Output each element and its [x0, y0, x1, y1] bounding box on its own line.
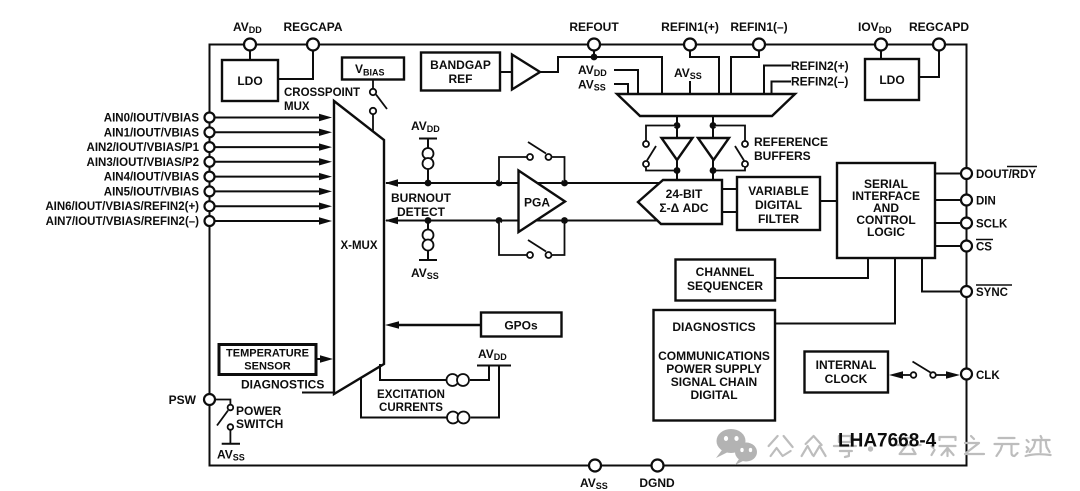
- svg-text:PSW: PSW: [169, 393, 197, 407]
- pin REFIN1(-): [730, 20, 787, 51]
- node burnout bottom junction: [425, 217, 432, 224]
- wire AVSS center to ref mux: [689, 81, 691, 94]
- wire AIN4 to X-MUX: [215, 173, 333, 180]
- svg-text:BUFFERS: BUFFERS: [754, 149, 811, 163]
- svg-text:CROSSPOINT: CROSSPOINT: [284, 87, 360, 99]
- watermark wechat icon: [716, 429, 757, 465]
- node PGA bypass upper-left: [496, 180, 503, 187]
- svg-text:AIN4/IOUT/VBIAS: AIN4/IOUT/VBIAS: [104, 172, 200, 184]
- switch S4 (PGA bypass top): [499, 142, 565, 183]
- wire excitation upper to AVDD rail: [470, 366, 489, 381]
- pin REGCAPD: [909, 20, 969, 51]
- switch S7 (power switch): [215, 400, 233, 444]
- wire ADC to filter (upper): [722, 188, 737, 190]
- wire right buffer output: [712, 160, 714, 180]
- LDO U2 (digital, top-right): [865, 59, 919, 100]
- pin AIN2/IOUT/VBIAS/P1: [87, 142, 215, 154]
- reference mux trapezoid: [617, 94, 795, 116]
- current source I3 (excitation upper): [447, 374, 470, 386]
- wire serial to CS: [935, 245, 961, 247]
- wire diagnostics to serial: [775, 258, 895, 324]
- wire filter to serial interface: [820, 200, 837, 202]
- wire serial to SCLK: [935, 222, 961, 224]
- wire ref mux to left buffer: [676, 116, 678, 138]
- INTERNAL CLOCK box: [805, 352, 889, 393]
- current source I2 (burnout bottom, AVSS): [411, 221, 439, 282]
- svg-text:SEQUENCER: SEQUENCER: [687, 279, 763, 293]
- switch S1 (VBIAS to X-MUX): [370, 80, 387, 131]
- wire excitation lower to AVDD rail: [471, 366, 500, 418]
- pin AVDD (top-left): [233, 20, 262, 51]
- svg-text:AIN3/IOUT/VBIAS/P2: AIN3/IOUT/VBIAS/P2: [87, 157, 199, 169]
- svg-text:REFIN2(+): REFIN2(+): [791, 59, 849, 73]
- wire REFOUT pin to node: [593, 51, 595, 58]
- svg-text:MUX: MUX: [284, 101, 310, 113]
- svg-text:BANDGAP: BANDGAP: [430, 58, 491, 72]
- GPOs box: [481, 313, 562, 337]
- wire ref mux to right buffer: [712, 116, 714, 138]
- pin SYNC: [961, 285, 1012, 299]
- LDO U1 (analog, top-left): [222, 60, 278, 101]
- pin CLK: [961, 369, 1000, 383]
- pin AIN1/IOUT/VBIAS: [104, 127, 215, 139]
- svg-text:AIN5/IOUT/VBIAS: AIN5/IOUT/VBIAS: [104, 186, 200, 198]
- svg-text:SIGNAL CHAIN: SIGNAL CHAIN: [671, 375, 757, 389]
- node PGA bypass lower-left: [496, 217, 503, 224]
- wire REFIN1(+) pin to ref mux: [690, 51, 719, 95]
- svg-text:SENSOR: SENSOR: [244, 361, 291, 373]
- svg-text:POWER: POWER: [236, 404, 282, 418]
- svg-text:LHA7668-4: LHA7668-4: [838, 431, 937, 452]
- pin DIN: [961, 195, 996, 208]
- svg-text:POWER SUPPLY: POWER SUPPLY: [666, 362, 762, 376]
- wire IOVDD pin to LDO: [880, 51, 882, 60]
- svg-text:24-BIT: 24-BIT: [666, 187, 703, 201]
- svg-text:DIGITAL: DIGITAL: [690, 388, 737, 402]
- wire X-MUX to excitation lower: [361, 378, 447, 418]
- switch S3 (right buffer bypass): [713, 126, 748, 171]
- chip boundary: [210, 45, 967, 466]
- pin AIN6/IOUT/VBIAS/REFIN2(+): [45, 201, 214, 213]
- svg-text:DIAGNOSTICS: DIAGNOSTICS: [241, 378, 324, 392]
- wire channel sequencer to serial: [775, 258, 868, 278]
- svg-text:INTERNAL: INTERNAL: [816, 358, 877, 372]
- pin REFOUT: [569, 20, 619, 51]
- wire AIN3 to X-MUX: [215, 158, 333, 165]
- pin AVSS (bottom): [580, 460, 608, 491]
- svg-text:BURNOUT: BURNOUT: [391, 191, 452, 205]
- pin IOVDD: [858, 20, 892, 51]
- svg-text:REGCAPD: REGCAPD: [909, 20, 969, 34]
- svg-text:LDO: LDO: [237, 74, 262, 88]
- node PGA bypass lower-right: [561, 217, 568, 224]
- pin CS: [961, 240, 993, 254]
- svg-text:REFERENCE: REFERENCE: [754, 135, 828, 149]
- wire AIN6 to X-MUX: [215, 203, 333, 210]
- wire serial to DIN: [935, 199, 961, 201]
- wire X-MUX to excitation upper: [380, 364, 447, 380]
- X-MUX: [334, 101, 384, 394]
- svg-text:AIN6/IOUT/VBIAS/REFIN2(+): AIN6/IOUT/VBIAS/REFIN2(+): [45, 201, 199, 213]
- svg-text:EXCITATION: EXCITATION: [377, 389, 445, 401]
- svg-text:TEMPERATURE: TEMPERATURE: [226, 348, 309, 360]
- node PGA bypass upper-right: [561, 180, 568, 187]
- svg-text:VARIABLE: VARIABLE: [748, 184, 808, 198]
- switch S6 (internal clock / CLK): [889, 362, 960, 379]
- wire bandgap output to reference mux: [540, 57, 662, 94]
- svg-text:DIGITAL: DIGITAL: [755, 198, 802, 212]
- VBIAS box: [342, 58, 404, 80]
- CROSSPOINT MUX label: [284, 87, 360, 113]
- label POWER SWITCH: [236, 404, 283, 431]
- power rail AVDD (excitation): [477, 347, 511, 366]
- pin PSW: [169, 393, 215, 407]
- pin SCLK: [961, 218, 1008, 231]
- node right buffer input: [710, 122, 717, 129]
- wire AIN1 to X-MUX: [215, 129, 333, 136]
- svg-text:CLOCK: CLOCK: [825, 372, 868, 386]
- CHANNEL SEQUENCER box: [676, 260, 776, 301]
- VARIABLE DIGITAL FILTER box: [737, 177, 820, 230]
- wire REFIN1(-) pin to ref mux: [731, 51, 759, 95]
- wire diagnostics to X-MUX: [302, 392, 335, 394]
- svg-text:AIN1/IOUT/VBIAS: AIN1/IOUT/VBIAS: [104, 127, 200, 139]
- svg-text:CLK: CLK: [976, 370, 1000, 382]
- op-amp A2 (left reference buffer): [662, 138, 693, 160]
- svg-text:DGND: DGND: [639, 476, 675, 490]
- svg-text:SWITCH: SWITCH: [236, 417, 283, 431]
- pin AIN0/IOUT/VBIAS: [104, 113, 215, 125]
- node REFOUT junction: [591, 54, 598, 61]
- svg-text:PGA: PGA: [524, 196, 550, 210]
- svg-text:AIN2/IOUT/VBIAS/P1: AIN2/IOUT/VBIAS/P1: [87, 142, 200, 154]
- op-amp A1 (bandgap buffer): [500, 55, 540, 90]
- current source I1 (burnout top, AVDD): [411, 119, 440, 183]
- svg-text:CS: CS: [976, 242, 992, 254]
- svg-text:LDO: LDO: [879, 73, 904, 87]
- DIAGNOSTICS box: [654, 310, 776, 421]
- label EXCITATION CURRENTS: [377, 389, 445, 414]
- wire GPOs to X-MUX: [385, 321, 481, 329]
- op-amp A3 (right reference buffer): [698, 138, 729, 160]
- wire AIN0 to X-MUX: [215, 114, 333, 121]
- svg-text:COMMUNICATIONS: COMMUNICATIONS: [658, 349, 770, 363]
- pin REFIN1(+): [661, 20, 719, 51]
- label REFERENCE BUFFERS: [754, 135, 828, 163]
- svg-text:REGCAPA: REGCAPA: [283, 20, 342, 34]
- svg-text:AIN7/IOUT/VBIAS/REFIN2(–): AIN7/IOUT/VBIAS/REFIN2(–): [46, 216, 200, 228]
- svg-text:X-MUX: X-MUX: [340, 240, 377, 252]
- wire REFIN2(+) to ref mux: [764, 66, 791, 95]
- wire AIN7 to X-MUX: [215, 217, 333, 224]
- TEMPERATURE SENSOR box: [219, 345, 316, 375]
- pin AIN7/IOUT/VBIAS/REFIN2(-): [46, 216, 215, 228]
- svg-text:REFIN1(+): REFIN1(+): [661, 20, 719, 34]
- wire REGCAPD pin to LDO: [919, 51, 939, 78]
- node left buffer output: [674, 167, 681, 174]
- svg-text:GPOs: GPOs: [504, 319, 538, 333]
- BANDGAP REF box: [421, 53, 500, 91]
- current source I4 (excitation lower): [447, 412, 470, 424]
- svg-text:SYNC: SYNC: [976, 287, 1008, 299]
- wire AIN2 to X-MUX: [215, 143, 333, 150]
- svg-text:Σ-Δ ADC: Σ-Δ ADC: [659, 201, 708, 215]
- svg-text:LOGIC: LOGIC: [867, 225, 905, 239]
- wire ADC to filter (lower): [722, 211, 737, 213]
- wire left buffer output: [676, 160, 678, 180]
- wire AVDD pin to LDO: [249, 51, 251, 61]
- wire REGCAPA pin to LDO: [278, 51, 313, 80]
- wire AVDD to ref mux: [614, 70, 638, 94]
- svg-text:DETECT: DETECT: [397, 205, 446, 219]
- node left buffer input: [674, 122, 681, 129]
- svg-text:FILTER: FILTER: [758, 212, 799, 226]
- pin AIN3/IOUT/VBIAS/P2: [87, 157, 215, 169]
- pin DGND: [639, 460, 675, 491]
- pin AIN4/IOUT/VBIAS: [104, 172, 215, 184]
- watermark text 公众号·云深之无迹: [769, 436, 1051, 457]
- wire AVSS to ref mux: [614, 84, 628, 94]
- wire X-MUX to ADC (lower signal): [385, 217, 658, 224]
- node right buffer output: [710, 167, 717, 174]
- wire AIN5 to X-MUX: [215, 188, 333, 195]
- wire serial to SYNC: [922, 258, 961, 292]
- ground AVSS (power switch): [217, 444, 245, 463]
- svg-text:REFIN1(–): REFIN1(–): [730, 20, 787, 34]
- wire temperature sensor to X-MUX: [316, 355, 333, 362]
- svg-text:DIN: DIN: [976, 196, 996, 208]
- svg-text:REF: REF: [449, 72, 473, 86]
- switch S2 (left buffer bypass): [643, 126, 677, 171]
- svg-text:SCLK: SCLK: [976, 219, 1008, 231]
- svg-text:DOUT/RDY: DOUT/RDY: [976, 169, 1036, 181]
- switch S5 (PGA bypass bottom): [499, 221, 565, 259]
- svg-text:CHANNEL: CHANNEL: [696, 265, 755, 279]
- pin DOUT/RDY: [961, 167, 1037, 182]
- pin REGCAPA: [283, 20, 342, 51]
- svg-text:AIN0/IOUT/VBIAS: AIN0/IOUT/VBIAS: [104, 113, 200, 125]
- wire X-MUX to ADC (upper signal): [385, 179, 660, 186]
- ADC U3 (24-bit sigma-delta): [638, 180, 722, 224]
- svg-text:DIAGNOSTICS: DIAGNOSTICS: [672, 320, 755, 334]
- node burnout top junction: [425, 180, 432, 187]
- svg-text:REFIN2(–): REFIN2(–): [791, 75, 848, 89]
- pin AIN5/IOUT/VBIAS: [104, 186, 215, 198]
- wire serial to DOUT/RDY: [935, 173, 961, 175]
- wire REFIN2(-) to ref mux: [772, 82, 792, 95]
- SERIAL INTERFACE AND CONTROL LOGIC box: [837, 163, 935, 258]
- op-amp U4 (PGA): [519, 171, 566, 233]
- svg-text:CURRENTS: CURRENTS: [379, 402, 443, 414]
- svg-text:REFOUT: REFOUT: [569, 20, 619, 34]
- label BURNOUT DETECT: [391, 191, 452, 219]
